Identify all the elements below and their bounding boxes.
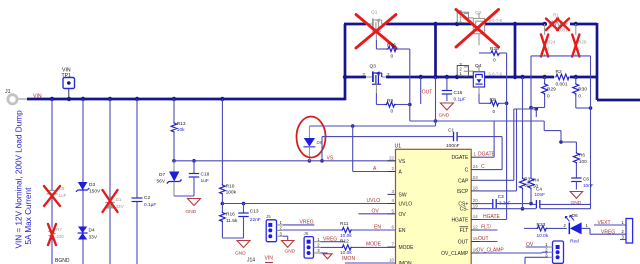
svg-text:R3: R3 xyxy=(524,177,530,182)
svg-text:1uF: 1uF xyxy=(201,178,209,184)
svg-text:1: 1 xyxy=(622,220,625,225)
svg-text:C: C xyxy=(465,168,469,174)
svg-text:C18: C18 xyxy=(201,172,210,178)
svg-text:D4: D4 xyxy=(89,228,95,234)
svg-text:Q4: Q4 xyxy=(475,63,482,69)
svg-text:VS: VS xyxy=(399,159,406,165)
svg-text:10nF: 10nF xyxy=(583,183,594,188)
svg-text:GND: GND xyxy=(439,113,450,119)
svg-text:HGATE: HGATE xyxy=(451,218,469,224)
svg-text:R8: R8 xyxy=(490,97,496,103)
svg-text:GND: GND xyxy=(186,209,197,215)
svg-text:10.0k: 10.0k xyxy=(340,250,352,256)
svg-text:100: 100 xyxy=(579,159,587,164)
svg-text:1uF: 1uF xyxy=(59,193,67,198)
svg-text:J1: J1 xyxy=(5,89,11,95)
svg-text:C13: C13 xyxy=(250,209,259,215)
svg-text:4: 4 xyxy=(392,198,395,203)
svg-text:R26: R26 xyxy=(387,42,396,48)
svg-text:1: 1 xyxy=(474,152,477,157)
svg-text:R2: R2 xyxy=(556,69,562,75)
svg-text:ISCP: ISCP xyxy=(457,189,469,195)
svg-text:VIN: VIN xyxy=(265,256,274,262)
svg-text:12: 12 xyxy=(473,225,478,230)
svg-text:R7: R7 xyxy=(56,227,62,232)
svg-text:VS: VS xyxy=(327,155,334,161)
svg-text:CS-: CS- xyxy=(460,207,469,213)
svg-text:OV_CLAMP: OV_CLAMP xyxy=(441,251,469,257)
svg-text:3: 3 xyxy=(280,231,283,236)
svg-text:3: 3 xyxy=(392,189,395,194)
svg-text:DGATE: DGATE xyxy=(451,155,469,161)
svg-text:R13: R13 xyxy=(177,121,186,127)
svg-text:OUT: OUT xyxy=(458,240,469,246)
svg-text:SW: SW xyxy=(399,192,407,198)
svg-text:VEXT: VEXT xyxy=(598,220,611,226)
svg-text:5-6-7-8: 5-6-7-8 xyxy=(489,71,503,76)
svg-text:VREG: VREG xyxy=(300,220,314,226)
svg-text:0: 0 xyxy=(493,58,496,64)
svg-text:1: 1 xyxy=(459,18,462,23)
svg-text:VREG: VREG xyxy=(601,229,615,235)
svg-text:MODE: MODE xyxy=(399,245,415,251)
svg-text:33V: 33V xyxy=(89,235,98,241)
svg-text:C4: C4 xyxy=(536,186,542,191)
svg-text:2: 2 xyxy=(280,226,283,231)
svg-text:GND: GND xyxy=(235,251,246,257)
svg-text:100nF: 100nF xyxy=(446,143,460,149)
svg-text:0.001: 0.001 xyxy=(556,82,568,88)
svg-text:24: 24 xyxy=(473,164,478,169)
svg-text:0.1µF: 0.1µF xyxy=(454,97,466,103)
svg-text:3: 3 xyxy=(317,248,320,253)
svg-text:11.5k: 11.5k xyxy=(226,218,238,224)
svg-text:10: 10 xyxy=(389,258,394,263)
svg-text:R11: R11 xyxy=(340,221,349,227)
svg-text:OV: OV xyxy=(526,242,534,248)
svg-text:R6: R6 xyxy=(579,153,585,158)
svg-text:VREG: VREG xyxy=(323,236,337,242)
svg-text:GND: GND xyxy=(571,200,582,206)
svg-text:5: 5 xyxy=(392,208,395,213)
svg-text:2: 2 xyxy=(317,243,320,248)
svg-text:10nF: 10nF xyxy=(535,192,546,197)
svg-text:J14: J14 xyxy=(247,258,255,264)
svg-text:UVLO: UVLO xyxy=(399,202,413,208)
svg-text:R9: R9 xyxy=(387,98,393,104)
svg-text:100: 100 xyxy=(56,234,64,239)
svg-text:IMON: IMON xyxy=(342,256,355,262)
svg-text:22nF: 22nF xyxy=(250,217,261,223)
svg-text:0: 0 xyxy=(578,94,581,100)
svg-text:BGND: BGND xyxy=(55,258,70,264)
svg-text:Q3: Q3 xyxy=(370,64,377,70)
svg-text:14: 14 xyxy=(473,214,478,219)
svg-text:D3: D3 xyxy=(89,182,95,188)
svg-text:6: 6 xyxy=(392,225,395,230)
svg-text:D6: D6 xyxy=(572,213,578,219)
svg-text:Q1: Q1 xyxy=(371,10,378,16)
svg-text:R10: R10 xyxy=(226,183,235,189)
svg-text:1: 1 xyxy=(317,237,320,242)
svg-text:D7: D7 xyxy=(159,172,165,178)
svg-text:5A Max Current: 5A Max Current xyxy=(24,187,33,245)
svg-text:0: 0 xyxy=(493,109,496,115)
svg-text:0: 0 xyxy=(391,54,394,60)
svg-text:100k: 100k xyxy=(226,189,237,195)
svg-text:J5: J5 xyxy=(266,214,271,219)
svg-text:VIN = 12V Nominal, 200V Load D: VIN = 12V Nominal, 200V Load Dump xyxy=(15,110,24,249)
svg-text:TP1: TP1 xyxy=(62,73,72,79)
svg-text:C16: C16 xyxy=(454,90,463,96)
svg-text:0: 0 xyxy=(547,94,550,100)
svg-text:R29: R29 xyxy=(547,87,556,93)
svg-text:7: 7 xyxy=(392,242,395,247)
svg-text:R16: R16 xyxy=(226,212,235,218)
svg-text:10.0k: 10.0k xyxy=(537,233,549,239)
svg-text:D1: D1 xyxy=(116,197,122,202)
svg-text:1: 1 xyxy=(280,220,283,225)
svg-text:C6: C6 xyxy=(583,177,589,182)
svg-text:19: 19 xyxy=(473,203,478,208)
svg-text:10.0k: 10.0k xyxy=(340,233,352,239)
svg-text:U1: U1 xyxy=(395,144,402,150)
svg-text:UVLO: UVLO xyxy=(367,198,381,204)
svg-text:R28: R28 xyxy=(578,40,587,45)
svg-text:5-6-7-8: 5-6-7-8 xyxy=(489,18,503,23)
svg-text:R28: R28 xyxy=(490,46,499,52)
svg-text:2: 2 xyxy=(392,166,395,171)
svg-text:C2: C2 xyxy=(144,195,150,201)
svg-text:0.1µF: 0.1µF xyxy=(144,202,156,208)
svg-text:J6: J6 xyxy=(304,231,309,236)
svg-text:33V: 33V xyxy=(116,204,125,209)
svg-text:20: 20 xyxy=(473,198,478,203)
svg-text:23: 23 xyxy=(473,175,478,180)
svg-text:56V: 56V xyxy=(157,179,166,185)
svg-text:CAP: CAP xyxy=(458,178,469,184)
svg-text:R23: R23 xyxy=(537,222,546,228)
svg-text:C3: C3 xyxy=(498,194,504,199)
svg-text:22: 22 xyxy=(389,155,394,160)
svg-text:Red: Red xyxy=(570,239,579,245)
svg-text:2: 2 xyxy=(564,223,567,228)
svg-text:1: 1 xyxy=(459,71,462,76)
svg-text:R4: R4 xyxy=(533,177,539,182)
svg-text:VIN: VIN xyxy=(33,94,42,100)
svg-text:EN: EN xyxy=(399,228,406,234)
svg-text:10k: 10k xyxy=(177,127,185,133)
svg-text:2: 2 xyxy=(622,229,625,234)
svg-text:3.3nF: 3.3nF xyxy=(499,201,511,206)
svg-text:Q2: Q2 xyxy=(475,10,482,16)
svg-text:GND: GND xyxy=(285,249,296,255)
svg-text:0: 0 xyxy=(391,108,394,114)
svg-text:150V: 150V xyxy=(89,189,101,195)
svg-text:OV: OV xyxy=(399,212,407,218)
svg-text:OUT: OUT xyxy=(422,90,433,96)
svg-text:18: 18 xyxy=(473,185,478,190)
svg-text:FLT: FLT xyxy=(460,228,469,234)
svg-text:R30: R30 xyxy=(578,87,587,93)
svg-text:R24: R24 xyxy=(547,40,556,45)
svg-text:1: 1 xyxy=(586,223,589,228)
svg-text:MODE: MODE xyxy=(366,242,382,248)
